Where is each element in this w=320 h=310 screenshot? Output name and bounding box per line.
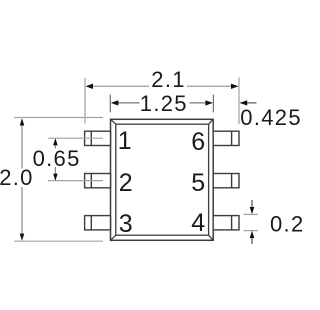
dimension 2.0 arrowhead down [20, 234, 25, 241]
svg-text:2.0: 2.0 [0, 165, 34, 190]
dimension 2.0 line lower segment [21, 187, 23, 240]
pin 5 lead (right middle) [213, 174, 239, 188]
svg-text:2: 2 [119, 169, 133, 197]
pin 2 lead (left middle) [85, 174, 111, 188]
dimension 0.425 arrow tail [241, 102, 257, 104]
dimension 0.2 upper arrow tail [251, 200, 253, 209]
svg-text:3: 3 [119, 210, 133, 238]
svg-text:0.65: 0.65 [33, 146, 81, 171]
svg-text:0.2: 0.2 [270, 212, 304, 237]
bevel diagonal top-left [111, 119, 116, 124]
dimension 2.1 arrowhead left [86, 84, 94, 89]
svg-text:0.425: 0.425 [240, 105, 302, 130]
dimension 2.1 extension line left (pin tip) [84, 78, 86, 124]
dimension 0.65 extension line pin1 centerline [48, 137, 103, 139]
package body inner outline (bevel) [116, 124, 209, 235]
pin 4 lead (right bottom) [213, 216, 239, 230]
svg-text:1.25: 1.25 [140, 91, 188, 116]
bevel diagonal top-right [209, 119, 214, 124]
dimension 1.25 arrowhead right [205, 100, 213, 105]
svg-text:1: 1 [118, 127, 132, 155]
bevel diagonal bottom-left [111, 235, 116, 240]
dimension 1.25 line right segment [190, 102, 208, 104]
dimension 0.65 arrowhead down [53, 174, 58, 181]
dimension 0.2 arrowhead up [250, 231, 255, 238]
pin 6 lead (right top) [213, 131, 239, 145]
dimension 2.1 extension line right (pin tip) [238, 78, 240, 125]
dimension 2.0 extension line top [14, 117, 103, 119]
dimension 0.2 arrowhead down [250, 207, 255, 214]
dimension 1.25 line left segment [117, 102, 140, 104]
dimension 0.2 extension line top (pin4 upper edge) [244, 213, 259, 215]
dimension 2.0 extension line bottom [14, 240, 103, 242]
svg-text:6: 6 [191, 128, 205, 156]
dimension 0.2 extension line bottom (pin4 lower edge) [244, 230, 259, 232]
bevel diagonal bottom-right [209, 235, 214, 240]
dimension 2.1 arrowhead right [231, 84, 239, 89]
dimension 2.1 line right segment [187, 85, 233, 87]
pin 3 lead (left bottom) [85, 216, 111, 230]
dimension 2.1 line left segment [91, 85, 149, 87]
dimension 0.65 extension line pin2 centerline [48, 180, 103, 182]
dimension 0.425 arrowhead [240, 100, 248, 105]
dimension 0.65 line lower segment [54, 167, 56, 180]
svg-text:2.1: 2.1 [151, 67, 185, 92]
pin 1 lead (left top) [85, 131, 111, 145]
dimension 2.0 line upper segment [21, 120, 23, 169]
svg-text:5: 5 [191, 169, 205, 197]
dimension 0.65 arrowhead up [53, 138, 58, 145]
dimension 2.0 arrowhead up [20, 118, 25, 125]
dimension 1.25 extension line right (body edge) [212, 95, 214, 113]
package body outer outline [111, 119, 214, 240]
dimension 0.2 lower arrow tail [251, 236, 253, 245]
dimension 0.65 line upper segment [54, 139, 56, 149]
svg-text:4: 4 [191, 209, 205, 237]
dimension 1.25 extension line left (body edge) [109, 95, 111, 113]
dimension 1.25 arrowhead left [111, 100, 119, 105]
